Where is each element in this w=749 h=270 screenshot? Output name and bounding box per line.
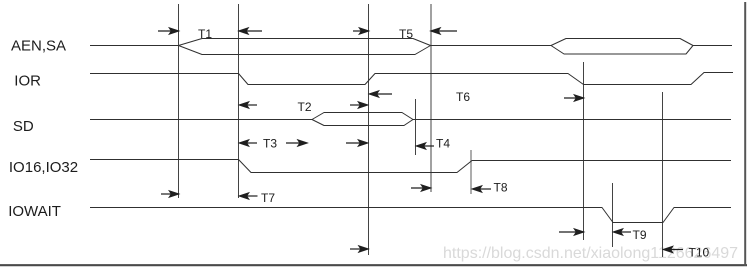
arrow to t5 line, T6 right: [564, 95, 584, 101]
svg-text:T4: T4: [436, 137, 450, 151]
arrow from t2 line, T2 left: [240, 102, 258, 108]
arrow to t5 line, IOWAIT T9 left: [559, 229, 584, 235]
labels: [8, 37, 78, 220]
svg-text:IOWAIT: IOWAIT: [8, 203, 61, 220]
svg-text:T8: T8: [494, 181, 508, 195]
wire AEN,SA mid: [431, 45, 552, 47]
vertical ref line t1 (x=178): [178, 4, 180, 198]
wire SD lead-in: [90, 119, 312, 121]
svg-text:T5: T5: [399, 27, 413, 41]
arrow to t1 line, T7 left: [161, 191, 179, 197]
vertical ref line t5 (x=583.5): [583, 62, 585, 240]
vertical ref line t4 (x=431): [430, 4, 432, 192]
tick T8 ref (x=471): [470, 150, 472, 194]
arrow to t4 line, T8 left: [411, 185, 431, 191]
vertical ref line t2 (x=238.5): [238, 4, 240, 198]
svg-text:T6: T6: [456, 90, 470, 104]
node AEN,SA bus-valid eye 2: [551, 39, 693, 55]
arrow from t3 line, T6 left: [370, 91, 393, 97]
tick T9 ref (x=612.5): [612, 183, 614, 247]
arrows: [158, 28, 683, 253]
wire IO16,IO32 waveform: [90, 160, 731, 173]
arrow from T8 tick, T8 right: [473, 186, 492, 192]
svg-text:T3: T3: [263, 137, 277, 151]
svg-text:T2: T2: [298, 100, 312, 114]
wire AEN,SA tail: [693, 45, 732, 47]
arrow from T4 tick, T4: [417, 143, 435, 149]
arrow to t3 line, bottom: [350, 246, 368, 252]
arrow from t2 line, T7 right: [240, 193, 258, 199]
svg-text:IOR: IOR: [14, 73, 41, 90]
svg-text:T7: T7: [261, 191, 275, 205]
vertical ref line t3 (x=368.5): [368, 4, 370, 255]
wire SD tail: [413, 119, 731, 121]
arrow from t6 line, T10: [664, 247, 684, 253]
border bottom: [0, 264, 747, 266]
arrow from t2 line, T1 right: [239, 28, 262, 34]
wire AEN,SA lead-in: [90, 45, 179, 47]
arrow to t1 line, T1 left: [158, 28, 179, 34]
arrow from t2 line, T3 left: [240, 140, 258, 146]
arrow from T9 tick, T9 right: [614, 229, 632, 235]
svg-text:SD: SD: [13, 118, 34, 135]
arrow T3 right (floating): [286, 140, 307, 146]
svg-text:T10: T10: [689, 246, 710, 260]
tick T4 ref (x=415.5): [415, 99, 417, 155]
svg-text:T1: T1: [198, 27, 212, 41]
arrow to t3 line, T2 right: [350, 102, 368, 108]
svg-text:AEN,SA: AEN,SA: [11, 37, 66, 54]
arrow to t3 line (T3 dimension end): [346, 140, 368, 146]
svg-text:IO16,IO32: IO16,IO32: [9, 159, 78, 176]
wire IOWAIT waveform: [90, 208, 731, 223]
node SD bus-valid eye: [312, 113, 413, 126]
arrow to t3 line, T5 left: [353, 28, 369, 34]
svg-text:T9: T9: [633, 228, 647, 242]
wire IOR waveform: [90, 73, 733, 85]
border right: [744, 2, 746, 266]
vertical ref line t6 (x=662.5): [662, 92, 664, 257]
arrow from t4 line, T5 right: [431, 28, 457, 34]
node AEN,SA bus-valid eye 1: [179, 39, 431, 55]
